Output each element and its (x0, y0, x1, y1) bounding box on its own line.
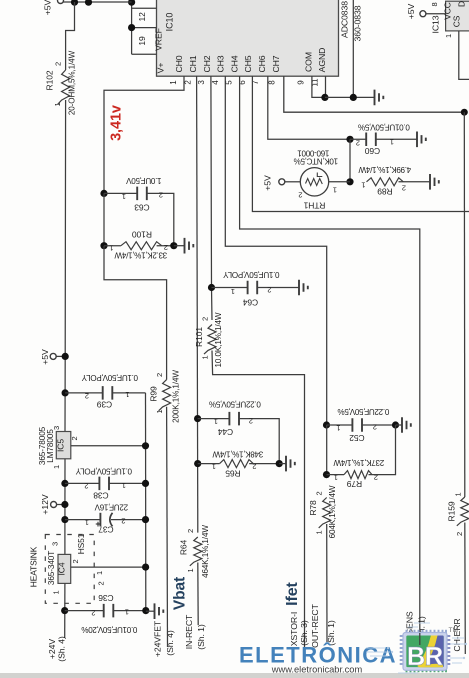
ground rail symbol (146, 610, 155, 612)
wire node down (349, 139, 351, 182)
svg-text:10.0K,1%,1/4W: 10.0K,1%,1/4W (214, 312, 223, 367)
wire CH3 right-down (225, 76, 326, 425)
svg-text:3: 3 (197, 80, 206, 85)
svg-text:2: 2 (252, 462, 256, 471)
svg-text:R79: R79 (346, 479, 362, 489)
+5V terminal top-left (58, 0, 64, 4)
junction rail-C36 (142, 607, 149, 614)
VREF pin box 19 (132, 27, 157, 29)
wire stub up (88, 0, 90, 3)
svg-text:3,41v: 3,41v (109, 105, 125, 141)
svg-text:1: 1 (214, 417, 218, 426)
svg-text:1: 1 (200, 355, 209, 359)
wire SENS over logo (419, 633, 421, 645)
wire CH7 down (463, 112, 466, 497)
+5V terminal IC13 (420, 11, 426, 17)
wire CH4 right-down SENS (240, 76, 420, 637)
svg-text:2: 2 (164, 243, 168, 252)
svg-text:C60: C60 (364, 146, 380, 156)
svg-text:1: 1 (122, 192, 126, 201)
svg-text:2: 2 (121, 517, 125, 526)
svg-text:R100: R100 (132, 230, 152, 240)
svg-text:C64: C64 (242, 298, 258, 308)
junction C63 left (100, 190, 107, 197)
ground R89 (430, 174, 439, 190)
svg-text:CH0: CH0 (174, 55, 184, 72)
svg-text:CH7: CH7 (271, 55, 281, 72)
svg-text:(Sh. 4): (Sh. 4) (165, 630, 175, 656)
wire from top at x353 (352, 0, 354, 97)
junction +5v-wire (62, 353, 69, 360)
svg-text:2: 2 (70, 436, 79, 440)
watermark BR chip logo (400, 630, 451, 672)
junction C39 left (62, 389, 69, 396)
svg-text:RTH1: RTH1 (303, 201, 325, 211)
junction AGND (321, 94, 328, 101)
svg-text:(Sh. 1): (Sh. 1) (196, 624, 206, 650)
junction R65 left (194, 460, 201, 467)
resistor R79 (327, 425, 396, 489)
thermistor RTH1 (285, 149, 350, 211)
svg-text:(Sh. 4): (Sh. 4) (57, 636, 67, 662)
op-amp U-IC10 ADC0838 body (154, 0, 339, 76)
junction rail-R102 (71, 0, 78, 6)
svg-text:2: 2 (71, 559, 80, 563)
VREF pin box 12 (132, 7, 157, 9)
wire CH0 to R99 (104, 246, 167, 380)
wire IC5 pin2 to ground rail (71, 445, 146, 447)
capacitor C44 (198, 400, 280, 464)
svg-text:0.1UF,50V,POLY: 0.1UF,50V,POLY (223, 270, 280, 279)
capacitor C38 (65, 467, 146, 501)
svg-text:1: 1 (125, 608, 129, 617)
svg-text:CH1: CH1 (188, 55, 198, 72)
svg-text:+24V: +24V (47, 639, 57, 659)
junction R100 left (100, 242, 107, 249)
resistor R102 (45, 2, 77, 115)
svg-text:2: 2 (97, 581, 106, 585)
svg-text:R101: R101 (194, 327, 204, 347)
junction R79 left (323, 471, 330, 478)
svg-text:1: 1 (95, 571, 104, 575)
svg-text:1: 1 (122, 481, 126, 490)
resistor R159 (447, 492, 469, 536)
wire AGND to ground (325, 96, 375, 98)
svg-text:HEATSINK: HEATSINK (29, 546, 39, 587)
resistor R64 (179, 525, 211, 578)
ground C52 (396, 424, 403, 426)
svg-text:Ifet: Ifet (284, 581, 301, 605)
svg-text:1: 1 (85, 518, 89, 527)
svg-text:2: 2 (85, 392, 89, 401)
svg-text:0.01UF,50V,5%: 0.01UF,50V,5% (358, 123, 410, 132)
wire IC5 down (64, 459, 66, 535)
svg-text:V+: V+ (156, 63, 166, 74)
svg-text:1: 1 (444, 34, 453, 38)
wire IC4 down to +24V (64, 583, 66, 638)
svg-text:2: 2 (91, 609, 95, 618)
wire vref left (131, 2, 133, 54)
svg-text:0.1UF,50V,POLY: 0.1UF,50V,POLY (75, 467, 132, 476)
svg-text:1: 1 (155, 410, 164, 414)
junction C44 left (194, 415, 201, 422)
svg-text:IC5: IC5 (56, 439, 66, 452)
junction C38 left (61, 480, 68, 487)
svg-text:2: 2 (402, 183, 406, 192)
svg-text:R159: R159 (447, 501, 457, 521)
decorative traces (366, 623, 466, 673)
wire AGND (325, 76, 327, 97)
wire R159 to CH-ERR (464, 523, 467, 655)
svg-text:1: 1 (361, 181, 365, 190)
svg-text:CS: CS (452, 15, 462, 27)
junction C64 left (208, 284, 215, 291)
svg-text:365-340T: 365-340T (47, 551, 56, 585)
svg-text:AGND: AGND (317, 48, 327, 73)
svg-text:1: 1 (169, 80, 178, 85)
+5V terminal RTH1 (279, 179, 285, 185)
svg-text:19: 19 (137, 36, 147, 46)
junction C52 right (392, 421, 399, 428)
svg-text:3: 3 (52, 426, 61, 430)
capacitor C36 (65, 593, 146, 634)
resistor R100 (104, 230, 174, 260)
svg-text:1: 1 (231, 287, 235, 296)
svg-text:IC4: IC4 (57, 562, 67, 575)
svg-text:1: 1 (186, 568, 195, 572)
svg-text:2: 2 (155, 373, 164, 377)
ground R65 (279, 463, 286, 465)
svg-text:VREF: VREF (154, 28, 164, 51)
junction R100 right (170, 242, 177, 249)
svg-text:+5V: +5V (406, 3, 416, 19)
svg-text:1: 1 (334, 473, 338, 482)
svg-text:IC10: IC10 (165, 13, 175, 32)
svg-text:CH4: CH4 (229, 55, 239, 72)
wire CH1 down (197, 76, 198, 533)
+5V terminal mid-left (50, 353, 56, 359)
capacitor C60 (350, 123, 417, 157)
svg-text:360-0838: 360-0838 (353, 5, 363, 41)
svg-text:348K,1%,1/4W: 348K,1%,1/4W (212, 450, 263, 459)
svg-text:CH2: CH2 (202, 55, 212, 72)
svg-text:0.01UF,50V,20%: 0.01UF,50V,20% (82, 625, 138, 634)
svg-text:3: 3 (51, 542, 60, 546)
wire CH0 pin1 jog (104, 76, 184, 193)
junction rail-C38 (142, 480, 149, 487)
wire CH2 down (211, 76, 212, 320)
svg-text:R89: R89 (377, 186, 393, 196)
svg-text:2: 2 (455, 532, 464, 536)
capacitor C39 (65, 373, 145, 410)
svg-text:604K,1%,1/4W: 604K,1%,1/4W (328, 485, 337, 538)
svg-text:CH-ERR: CH-ERR (452, 618, 462, 651)
wire R99 to +24VFET (166, 407, 169, 647)
junction rail-C37 (142, 516, 149, 523)
junction rail-stub (85, 0, 92, 6)
capacitor C52 (327, 407, 396, 443)
capacitor C63 (104, 176, 174, 246)
svg-text:Vbat: Vbat (172, 577, 189, 610)
svg-text:BR: BR (407, 643, 443, 671)
svg-text:1: 1 (109, 244, 113, 253)
junction C52 left (323, 421, 330, 428)
svg-text:0.22UF,50V,5%: 0.22UF,50V,5% (338, 407, 390, 416)
svg-text:1: 1 (53, 102, 62, 106)
svg-text:C37: C37 (98, 525, 114, 535)
ground AGND (375, 90, 384, 106)
svg-text:2: 2 (315, 491, 324, 495)
junction CH7 corner (461, 109, 468, 116)
svg-text:R99: R99 (149, 386, 159, 402)
capacitor C64 (212, 270, 300, 308)
svg-text:2: 2 (298, 191, 302, 200)
wire R101 to XSTOR-I (212, 351, 305, 650)
svg-text:1: 1 (52, 465, 61, 469)
capacitor C37 electrolytic (65, 503, 146, 535)
svg-text:2: 2 (200, 317, 209, 321)
op-amp U-IC13 body (443, 1, 469, 31)
resistor R78 (308, 485, 337, 538)
resistor R89 (358, 165, 430, 197)
svg-text:1: 1 (390, 138, 394, 147)
svg-text:33.2K,1%,1/4W: 33.2K,1%,1/4W (114, 251, 167, 260)
svg-text:1: 1 (333, 186, 337, 195)
regulator IC4 365-340T (47, 535, 106, 595)
svg-text:R65: R65 (225, 469, 241, 479)
wire R102 to IC5 (64, 100, 67, 432)
svg-text:22UF,16V: 22UF,16V (94, 503, 128, 512)
svg-text:12: 12 (137, 12, 147, 22)
junction C60 left (346, 136, 353, 143)
svg-text:C44: C44 (217, 427, 233, 437)
svg-text:4: 4 (211, 80, 220, 85)
heatsink dashed outline (45, 535, 94, 604)
wire +5V rail (64, 1, 132, 3)
junction C36 left (61, 607, 68, 614)
svg-text:1: 1 (125, 390, 129, 399)
svg-text:R78: R78 (308, 500, 318, 516)
svg-text:2: 2 (249, 417, 253, 426)
svg-text:C63: C63 (134, 203, 150, 213)
junction rail-IC4pin2 (142, 564, 149, 571)
svg-text:464K,1%,1/4W: 464K,1%,1/4W (201, 525, 210, 578)
wire CS down-right (459, 31, 469, 80)
svg-text:R64: R64 (179, 539, 189, 555)
svg-text:HS51: HS51 (76, 533, 86, 554)
wire +5V to VCC (426, 13, 446, 15)
svg-text:10K,NTC,5%: 10K,NTC,5% (294, 157, 338, 166)
svg-text:0.1UF,50V,POLY: 0.1UF,50V,POLY (81, 373, 138, 382)
wire ground rail (145, 393, 147, 611)
svg-text:1: 1 (315, 530, 324, 534)
resistor R101 (194, 312, 223, 367)
wire R64 to IN-RECT (197, 563, 199, 626)
svg-text:1.0UF,50V: 1.0UF,50V (126, 176, 162, 185)
wire IC4 pin2 to ground rail (71, 566, 146, 568)
svg-text:CH6: CH6 (257, 55, 267, 72)
svg-text:160-0001: 160-0001 (297, 149, 330, 158)
svg-text:1: 1 (212, 462, 216, 471)
svg-text:2: 2 (54, 62, 63, 66)
junction RTH1-R89 (346, 178, 353, 185)
svg-text:TM: TM (449, 627, 458, 634)
svg-text:+5V: +5V (263, 175, 273, 191)
svg-text:20-OHM,5%,1/4W: 20-OHM,5%,1/4W (68, 50, 77, 115)
svg-text:LM78005: LM78005 (46, 429, 55, 463)
svg-text:ADC0838: ADC0838 (340, 1, 350, 38)
svg-text:2: 2 (186, 529, 195, 533)
svg-text:IN-RECT: IN-RECT (184, 614, 194, 649)
svg-text:200K,1%,1/4W: 200K,1%,1/4W (172, 370, 181, 423)
svg-text:2: 2 (356, 139, 360, 148)
regulator IC5 LM78005 (38, 426, 79, 469)
junction rail-IC5pin2 (142, 442, 149, 449)
svg-text:2: 2 (373, 423, 377, 432)
svg-text:XSTOR-I: XSTOR-I (289, 612, 299, 646)
junction vref-rail (128, 0, 135, 6)
svg-text:8: 8 (267, 80, 276, 85)
svg-text:0.22UF,50V,5%: 0.22UF,50V,5% (209, 400, 261, 409)
svg-text:2: 2 (159, 191, 163, 200)
svg-text:www.eletronicabr.com: www.eletronicabr.com (271, 665, 363, 675)
svg-text:1: 1 (52, 590, 61, 594)
svg-text:9: 9 (296, 80, 305, 85)
ground C64 (299, 280, 308, 296)
svg-text:CH3: CH3 (215, 55, 225, 72)
resistor R99 (149, 370, 181, 423)
wire CH0 down (103, 193, 105, 245)
svg-text:+24VFET: +24VFET (153, 620, 163, 657)
svg-text:4.99K,1%,1/4W: 4.99K,1%,1/4W (358, 165, 411, 174)
wire CH5 to right edge (252, 76, 469, 212)
svg-text:C39: C39 (96, 400, 112, 410)
junction vref-19 (128, 24, 135, 31)
ground C60 (417, 132, 426, 148)
svg-text:2: 2 (184, 80, 193, 85)
junction R65 right (276, 460, 283, 467)
svg-text:2: 2 (84, 482, 88, 491)
resistor R65 (198, 450, 280, 479)
svg-text:237K,1%,1/4W: 237K,1%,1/4W (333, 458, 384, 467)
svg-text:2: 2 (374, 473, 378, 482)
svg-text:OUT-RECT: OUT-RECT (310, 603, 320, 647)
svg-text:1: 1 (336, 424, 340, 433)
svg-text:+5V: +5V (40, 349, 50, 365)
svg-text:C36: C36 (98, 593, 114, 603)
+12V terminal (51, 502, 57, 508)
svg-text:D: D (457, 1, 467, 7)
svg-text:C38: C38 (93, 491, 109, 501)
svg-text:+12V: +12V (40, 494, 50, 514)
wire CH3 down2 (326, 425, 328, 475)
wire COM (312, 76, 325, 97)
svg-text:+5V: +5V (43, 0, 53, 15)
junction +12v (61, 501, 68, 508)
svg-text:COM: COM (303, 52, 313, 72)
ground R100 (174, 245, 185, 247)
scan edge band (0, 673, 469, 678)
svg-text:R102: R102 (45, 70, 55, 90)
junction C37 left (61, 516, 68, 523)
svg-text:8: 8 (430, 2, 439, 6)
wire CH7 long to right (284, 76, 465, 112)
svg-text:CH5: CH5 (243, 55, 253, 72)
svg-text:1: 1 (454, 492, 463, 496)
svg-text:2: 2 (267, 286, 271, 295)
junction x353 (350, 94, 357, 101)
wire CH6 to thermistor node (268, 76, 350, 139)
wire R78 to OUT-RECT (326, 524, 328, 642)
svg-text:IC13: IC13 (431, 15, 441, 33)
svg-text:C52: C52 (349, 433, 365, 443)
